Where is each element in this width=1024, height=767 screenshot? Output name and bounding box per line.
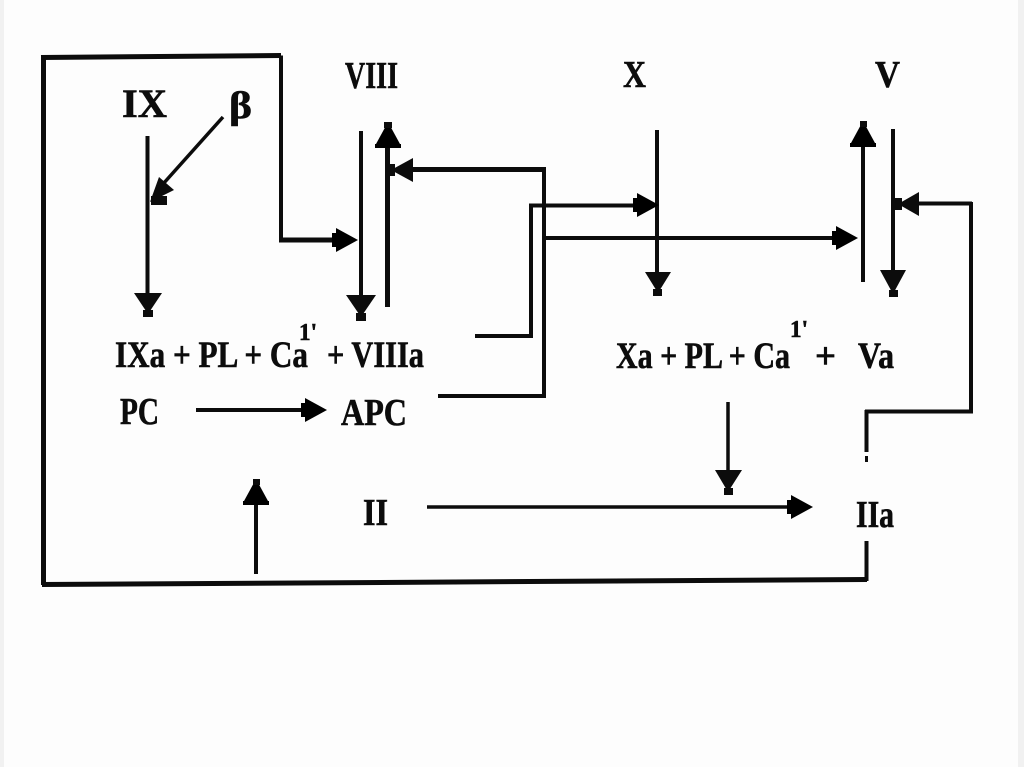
svg-text:II: II — [363, 492, 388, 534]
arrow beta diagonal into IX arrow — [150, 117, 223, 205]
arrow feedback up from bottom border — [243, 479, 269, 574]
arrow tenase complex to X (via branch) — [475, 193, 659, 338]
arrow loop into VIII — [279, 228, 358, 252]
arrow long line to Va up-arrow — [544, 226, 858, 250]
svg-text:Va: Va — [858, 336, 894, 377]
wire corner down from top border — [279, 56, 283, 241]
arrow II to IIa — [427, 495, 813, 519]
svg-text:IXa + PL + Ca: IXa + PL + Ca — [115, 335, 308, 376]
arrow PC to APC — [196, 398, 327, 422]
wire right loop down to IIa (broken) — [865, 410, 869, 452]
arrow Va up (inactivation) — [850, 121, 876, 282]
faint scan edge right — [1018, 0, 1024, 767]
arrow X down to Xa — [645, 130, 671, 296]
svg-text:1': 1' — [790, 317, 808, 343]
arrow VIIIa up (inactivation) — [375, 122, 401, 307]
svg-text:IIa: IIa — [856, 494, 894, 536]
svg-text:PC: PC — [120, 391, 159, 433]
faint scan edge left — [0, 0, 4, 767]
svg-text:V: V — [875, 54, 900, 96]
arrow IX down to IXa — [134, 136, 162, 317]
wire right border vertical — [969, 202, 973, 413]
svg-text:Xa + PL + Ca: Xa + PL + Ca — [616, 336, 790, 377]
arrow V down to Va — [880, 129, 906, 297]
svg-text:β: β — [229, 85, 252, 127]
wire outer feedback loop: left border — [41, 55, 46, 585]
wire outer feedback loop: top border — [41, 56, 281, 58]
svg-text:+: + — [815, 336, 836, 377]
svg-text:APC: APC — [341, 392, 407, 434]
svg-text:+ VIIIa: + VIIIa — [327, 335, 424, 376]
wire IIa to V loop: arrow into V down-arrow — [894, 192, 972, 216]
wire IIa to bottom border — [865, 541, 869, 581]
arrow APC into VIIIa up-arrow — [387, 158, 546, 182]
wire right loop horizontal — [865, 410, 973, 414]
svg-text:IX: IX — [122, 81, 167, 126]
svg-text:X: X — [623, 54, 646, 96]
svg-text:VIII: VIII — [345, 55, 398, 97]
svg-text:1': 1' — [299, 320, 317, 346]
wire APC branch up — [542, 168, 546, 396]
wire outer feedback loop: bottom border — [42, 580, 867, 585]
wire APC horizontal from APC — [438, 394, 546, 398]
arrow VIII down to VIIIa — [346, 131, 376, 321]
arrow prothrombinase down to II arrow — [715, 402, 742, 495]
